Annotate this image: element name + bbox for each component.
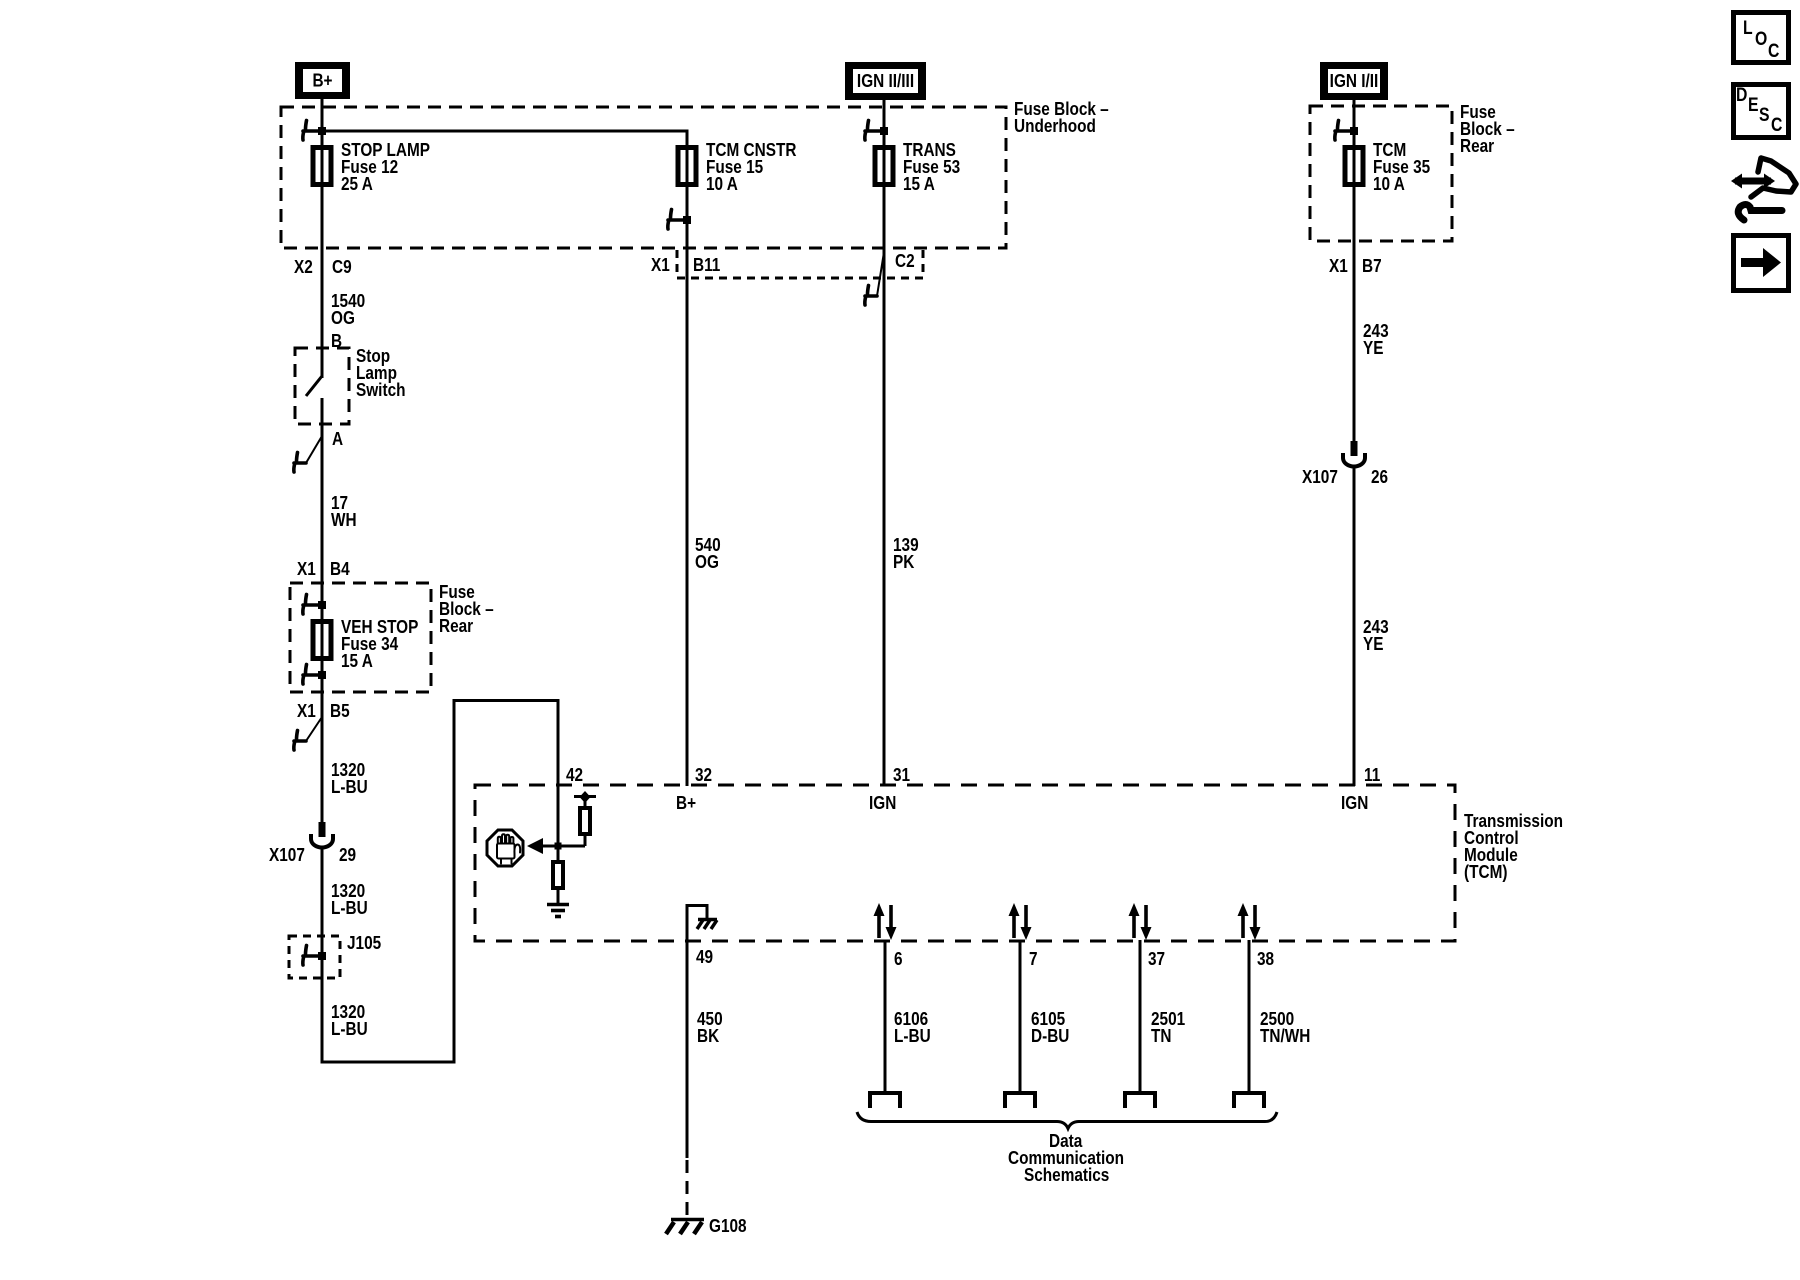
data link arrows at pin wire x=1020 bbox=[1012, 914, 1016, 938]
svg-text:1320L-BU: 1320L-BU bbox=[331, 881, 368, 919]
svg-text:IGN: IGN bbox=[869, 793, 896, 814]
wire bottom run across bbox=[321, 1061, 455, 1064]
wire up riser bbox=[453, 699, 456, 1064]
data wire terminal at x=1249 bbox=[1234, 1093, 1264, 1108]
splice J105 dashed box bbox=[289, 936, 340, 978]
svg-text:C9: C9 bbox=[332, 257, 352, 278]
wire IGN I/II feed to TCM fuse 35 bbox=[1353, 96, 1356, 443]
svg-text:42: 42 bbox=[566, 765, 583, 786]
svg-text:Fuse Block –Underhood: Fuse Block –Underhood bbox=[1014, 99, 1109, 137]
brace for data communication schematics bbox=[857, 1112, 1277, 1129]
wire top of riser across bbox=[453, 699, 559, 702]
wire TCM pin 38 bbox=[1248, 940, 1251, 1091]
data link arrows at pin wire x=1140 bbox=[1132, 914, 1136, 938]
svg-text:X1: X1 bbox=[297, 701, 316, 722]
svg-text:29: 29 bbox=[339, 845, 356, 866]
icon box forward arrow bbox=[1734, 236, 1789, 291]
svg-text:S: S bbox=[1759, 104, 1770, 126]
svg-text:C: C bbox=[1771, 114, 1783, 136]
earth ground under R2 bbox=[547, 903, 569, 907]
svg-text:C2: C2 bbox=[895, 251, 915, 272]
svg-text:X2: X2 bbox=[294, 257, 313, 278]
wire IGN II/III feed to TRANS fuse bbox=[883, 96, 886, 786]
fuse block rear (right) dashed box bbox=[1310, 106, 1452, 241]
data wire terminal at x=1020 bbox=[1005, 1093, 1035, 1108]
svg-text:7: 7 bbox=[1029, 949, 1038, 970]
ground G108 bbox=[671, 1218, 704, 1222]
svg-text:31: 31 bbox=[893, 765, 910, 786]
wire pin 49 dashed to G108 bbox=[686, 1160, 689, 1218]
data wire terminal at x=1140 bbox=[1125, 1093, 1155, 1108]
svg-text:11: 11 bbox=[1364, 765, 1380, 786]
TCM internal ground pin 49 bbox=[686, 904, 708, 907]
TCM internal junction pin 42 bbox=[540, 845, 585, 848]
data link arrows at pin wire x=885 bbox=[877, 914, 881, 938]
stop-hand indicator octagon bbox=[487, 830, 523, 866]
svg-text:Schematics: Schematics bbox=[1024, 1165, 1109, 1186]
fuse block rear (left) dashed box bbox=[290, 583, 431, 692]
svg-text:B+: B+ bbox=[676, 793, 696, 814]
stop lamp switch blade bbox=[306, 376, 322, 396]
svg-text:X1: X1 bbox=[297, 559, 316, 580]
svg-text:6: 6 bbox=[894, 949, 903, 970]
connector hook at IGN I/II into fuse block bbox=[1335, 129, 1354, 133]
svg-text:IGN I/II: IGN I/II bbox=[1330, 71, 1379, 92]
svg-text:B11: B11 bbox=[693, 255, 720, 276]
connector hook at B+ into fuse block bbox=[303, 129, 322, 133]
resistor R2 pull-down bbox=[553, 862, 563, 888]
wire switch contact A down to VEH STOP fuse bbox=[321, 398, 324, 823]
svg-text:IGN: IGN bbox=[1341, 793, 1368, 814]
svg-text:E: E bbox=[1748, 94, 1759, 116]
icon hand-drawn transfer arrows bbox=[1735, 178, 1771, 185]
svg-text:D: D bbox=[1736, 84, 1747, 106]
svg-text:B: B bbox=[331, 331, 342, 352]
svg-text:B4: B4 bbox=[330, 559, 350, 580]
data link arrows at pin wire x=1249 bbox=[1241, 914, 1245, 938]
svg-text:1320L-BU: 1320L-BU bbox=[331, 760, 368, 798]
power feed box IGN I/II bbox=[1320, 62, 1388, 100]
connector B11/C2 dashed strip bbox=[676, 250, 679, 278]
fuse F15 TCM CNSTR 10A bbox=[678, 148, 696, 185]
wire TCM pin 7 bbox=[1019, 940, 1022, 1091]
svg-text:B5: B5 bbox=[330, 701, 350, 722]
splice J105 hook bbox=[303, 954, 322, 958]
connector hook below TCM CNSTR fuse bbox=[668, 218, 687, 222]
power feed box B+ bbox=[295, 62, 350, 99]
wire X107 pin 26 down to TCM pin 11 bbox=[1353, 468, 1356, 786]
svg-text:IGN II/III: IGN II/III bbox=[857, 71, 914, 92]
svg-text:B+: B+ bbox=[312, 70, 332, 91]
wire X107 to J105 splice and down bbox=[321, 849, 324, 1064]
fuse block underhood dashed box bbox=[281, 107, 1006, 248]
svg-text:49: 49 bbox=[696, 947, 713, 968]
connector half below X1 B5 bbox=[306, 717, 322, 741]
svg-text:G108: G108 bbox=[709, 1216, 747, 1237]
svg-text:26: 26 bbox=[1371, 467, 1388, 488]
svg-text:32: 32 bbox=[695, 765, 712, 786]
wire B+ feed down to STOP LAMP fuse bbox=[321, 96, 324, 378]
svg-text:X1: X1 bbox=[1329, 256, 1348, 277]
svg-text:J105: J105 bbox=[347, 933, 381, 954]
connector X107 pin 29 bbox=[319, 822, 326, 837]
TCM dashed box bbox=[475, 785, 1455, 941]
svg-text:1320L-BU: 1320L-BU bbox=[331, 1002, 368, 1040]
connector half at switch terminal A bbox=[306, 436, 322, 463]
arrow to stop-hand indicator bbox=[527, 838, 543, 854]
connector hook above VEH STOP fuse bbox=[303, 603, 322, 607]
icon box LOC bbox=[1734, 13, 1789, 63]
wire TCM pin 6 bbox=[884, 940, 887, 1091]
svg-text:37: 37 bbox=[1148, 949, 1165, 970]
svg-text:6106L-BU: 6106L-BU bbox=[894, 1009, 931, 1047]
resistor R1 pull-up bbox=[580, 808, 590, 834]
svg-text:X107: X107 bbox=[1302, 467, 1338, 488]
data wire terminal at x=885 bbox=[870, 1093, 900, 1108]
svg-text:B7: B7 bbox=[1362, 256, 1382, 277]
connector hook below VEH STOP fuse bbox=[303, 673, 322, 677]
svg-text:X1: X1 bbox=[651, 255, 670, 276]
connector X107 pin 26 bbox=[1351, 441, 1358, 456]
power feed box IGN II/III bbox=[845, 62, 926, 100]
svg-text:C: C bbox=[1768, 40, 1780, 62]
stop lamp switch dashed box bbox=[295, 348, 349, 424]
svg-text:L: L bbox=[1743, 17, 1753, 39]
fuse F35 TCM 10A bbox=[1345, 148, 1363, 185]
svg-text:6105D-BU: 6105D-BU bbox=[1031, 1009, 1069, 1047]
wire down into TCM pin 42 bbox=[557, 699, 560, 846]
svg-text:X107: X107 bbox=[269, 845, 305, 866]
svg-text:450BK: 450BK bbox=[697, 1009, 723, 1047]
wire B+ branch to TCM CNSTR fuse bbox=[322, 131, 687, 786]
svg-text:38: 38 bbox=[1257, 949, 1274, 970]
icon box DESC bbox=[1734, 85, 1789, 138]
svg-text:540OG: 540OG bbox=[695, 535, 721, 573]
svg-text:A: A bbox=[332, 429, 343, 450]
wire TCM pin 49 ground lead solid part bbox=[686, 904, 689, 1158]
fuse F53 TRANS 15A bbox=[875, 148, 893, 185]
connector hook at IGN II/III into fuse block bbox=[865, 129, 884, 133]
connector half below C2 bbox=[877, 252, 884, 296]
fuse F34 VEH STOP 15A bbox=[313, 622, 331, 659]
svg-text:O: O bbox=[1755, 28, 1767, 50]
wire TCM pin 37 bbox=[1139, 940, 1142, 1091]
fuse F12 STOP LAMP 25A bbox=[313, 148, 331, 185]
